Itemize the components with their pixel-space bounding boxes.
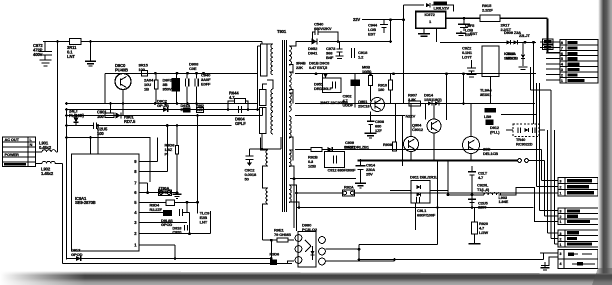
svg-text:C920: C920 bbox=[172, 230, 182, 235]
svg-text:1: 1 bbox=[560, 220, 562, 224]
transformer primary winding bbox=[271, 44, 273, 75]
wire connector feeds bbox=[540, 41, 560, 43]
svg-text:1.45x2: 1.45x2 bbox=[41, 171, 54, 176]
wire bottom bus 2 bbox=[63, 263, 293, 265]
svg-text:B4F: B4F bbox=[326, 55, 334, 60]
svg-text:R92A: R92A bbox=[344, 185, 354, 190]
svg-text:2M47 22C20BW: 2M47 22C20BW bbox=[320, 100, 348, 105]
wire opto bottom bbox=[288, 261, 295, 264]
wire row 207 bbox=[296, 207, 534, 209]
resistor R92B bbox=[311, 147, 322, 151]
svg-text:T901: T901 bbox=[277, 29, 287, 34]
wire IC972 bottom drop bbox=[436, 28, 438, 42]
wire left bus loop bbox=[104, 73, 106, 103]
svg-text:100: 100 bbox=[139, 67, 146, 72]
wire +B thick bbox=[446, 17, 480, 19]
wire pin9 bbox=[139, 161, 158, 163]
svg-text:LO?T: LO?T bbox=[462, 54, 473, 59]
svg-text:D941: D941 bbox=[308, 51, 318, 56]
svg-text:3: 3 bbox=[560, 252, 562, 256]
wire D911 bottom bbox=[415, 203, 417, 230]
inductor L903 bbox=[484, 193, 501, 195]
svg-text:3E3X1: 3E3X1 bbox=[480, 92, 492, 97]
wire primary top bbox=[262, 42, 273, 45]
svg-text:DRD/30LF: DRD/30LF bbox=[314, 86, 333, 91]
svg-text:SE5Z2: SE5Z2 bbox=[504, 55, 516, 60]
svg-text:PU40B: PU40B bbox=[115, 67, 128, 72]
svg-text:LNT: LNT bbox=[67, 54, 75, 59]
wire 190 row bbox=[471, 175, 473, 208]
wire misc right bbox=[530, 67, 532, 90]
svg-text:180: 180 bbox=[378, 87, 385, 92]
svg-text:DEL1CB: DEL1CB bbox=[483, 151, 498, 156]
svg-text:N: N bbox=[30, 142, 33, 147]
wire pin5 bbox=[139, 201, 166, 203]
resistor R9LB bbox=[485, 108, 497, 113]
svg-text:(PLL): (PLL) bbox=[490, 129, 500, 134]
wire opto out row244 bbox=[359, 244, 438, 246]
svg-text:E0FF: E0FF bbox=[201, 82, 211, 87]
svg-text:R908: R908 bbox=[383, 142, 393, 147]
inductor L902 bbox=[36, 163, 43, 165]
wire pin8 bbox=[139, 171, 167, 173]
svg-text:D9Z4 DRLZB1: D9Z4 DRLZB1 bbox=[344, 145, 370, 150]
node neutral-filter junction bbox=[65, 136, 68, 139]
capacitor C941 bbox=[185, 79, 187, 87]
svg-text:EST: EST bbox=[368, 31, 376, 36]
wire snubber row bbox=[67, 109, 258, 111]
node top-left junction bbox=[56, 40, 59, 43]
IC901 regulator bbox=[72, 154, 140, 251]
ground J910 bbox=[544, 262, 546, 268]
ground pin6 bbox=[176, 193, 178, 194]
transformer secondary windings bbox=[289, 46, 291, 65]
connector J909 bbox=[558, 230, 600, 247]
svg-text:3: 3 bbox=[560, 210, 562, 214]
wire pin3 bbox=[139, 222, 187, 224]
svg-text:2: 2 bbox=[560, 237, 562, 241]
wire secondary taps bbox=[289, 42, 311, 47]
svg-text:2SC18: 2SC18 bbox=[358, 103, 370, 108]
svg-text:1: 1 bbox=[560, 192, 562, 196]
label R921 bbox=[434, 2, 448, 6]
svg-text:680V/2KV: 680V/2KV bbox=[314, 26, 332, 31]
transistor Q903 bbox=[404, 137, 419, 152]
svg-text:GP-2B: GP-2B bbox=[157, 103, 169, 108]
node filter junctions bbox=[65, 108, 68, 111]
transformer primary formers bbox=[261, 44, 268, 76]
svg-text:100: 100 bbox=[97, 114, 104, 119]
svg-text:350V: 350V bbox=[163, 87, 172, 92]
svg-text:L/2W: L/2W bbox=[479, 230, 488, 235]
svg-text:C0E: C0E bbox=[189, 66, 197, 71]
svg-text:1: 1 bbox=[560, 243, 562, 247]
capacitor C906 bbox=[179, 209, 181, 216]
svg-text:GPLF: GPLF bbox=[235, 121, 246, 126]
svg-text:RD7.5: RD7.5 bbox=[124, 119, 136, 124]
svg-text:1/2B: 1/2B bbox=[308, 163, 316, 168]
svg-text:T1(L,6): T1(L,6) bbox=[477, 187, 490, 192]
snubber C912 bbox=[325, 152, 345, 168]
svg-text:0.45x2: 0.45x2 bbox=[39, 145, 52, 150]
wire transistor links bbox=[433, 104, 435, 120]
wire upper bus bbox=[105, 72, 258, 74]
wire drive row bbox=[67, 115, 263, 117]
svg-text:25V: 25V bbox=[366, 171, 373, 176]
node bus junctions bbox=[154, 72, 157, 75]
jumper J1 bbox=[518, 159, 522, 163]
wire Q904 base net bbox=[425, 103, 427, 119]
wire sec out bus bbox=[295, 73, 536, 75]
svg-text:79 OHMS: 79 OHMS bbox=[274, 232, 291, 237]
svg-text:1.94E: 1.94E bbox=[499, 199, 509, 204]
wire AC top bus bbox=[43, 41, 70, 43]
wire gate vertical bbox=[197, 116, 199, 214]
svg-text:EST: EST bbox=[470, 31, 478, 36]
wire pin4 drop bbox=[189, 213, 191, 234]
ground C914 bbox=[355, 182, 366, 184]
svg-text:22V: 22V bbox=[353, 17, 360, 22]
capacitor C2U5 bbox=[93, 122, 95, 129]
connector AC outlet J901 bbox=[3, 137, 36, 167]
wire IC972 left bbox=[403, 5, 405, 103]
svg-text:22LJT: 22LJT bbox=[519, 33, 530, 38]
capacitor C942 bbox=[194, 79, 196, 87]
wire opto out bottom bbox=[326, 260, 395, 262]
transformer core bbox=[282, 40, 284, 212]
transformer aux winding bbox=[266, 150, 268, 166]
IC973 box bbox=[482, 46, 499, 76]
ground C905 bbox=[460, 31, 462, 33]
svg-text:1B: 1B bbox=[144, 87, 149, 92]
capacitor C540 bbox=[313, 32, 316, 42]
capacitor C9Z3 bbox=[467, 67, 476, 69]
svg-text:3: 3 bbox=[560, 180, 562, 184]
wire primary links bbox=[257, 46, 259, 110]
svg-text:2: 2 bbox=[560, 215, 562, 219]
resistor R908 0.1 LNT bbox=[70, 39, 82, 45]
svg-text:R2.2ZF: R2.2ZF bbox=[150, 207, 163, 212]
wire row 193 bbox=[295, 192, 343, 194]
capacitor C920 bbox=[184, 225, 186, 231]
svg-text:3: 3 bbox=[560, 232, 562, 236]
wire opto out row259 bbox=[359, 259, 544, 261]
wire filter to IC drop bbox=[67, 138, 151, 183]
wire lower bus bbox=[67, 103, 258, 105]
wire mid bus Q901 bbox=[295, 103, 535, 105]
svg-text:22K: 22K bbox=[296, 65, 303, 70]
wire IC top links bbox=[90, 138, 92, 155]
capacitor C644 snubber bbox=[238, 106, 240, 113]
wire row 178 bbox=[290, 178, 356, 180]
wire 12V row bbox=[295, 149, 311, 151]
transistor Q902 bbox=[463, 137, 480, 154]
wire dash block leads bbox=[506, 129, 513, 131]
resistor R909 bbox=[369, 76, 373, 86]
diode D901 bbox=[75, 116, 77, 119]
wire +B down bbox=[547, 18, 549, 53]
svg-text:1.2: 1.2 bbox=[358, 55, 364, 60]
wire bold output bus bbox=[358, 160, 518, 162]
wire aux42 bus bbox=[440, 41, 536, 43]
svg-text:RC3022D: RC3022D bbox=[516, 141, 533, 146]
wire pin1 bbox=[139, 244, 175, 246]
svg-text:LNT: LNT bbox=[200, 220, 208, 225]
svg-text:1SS119(2): 1SS119(2) bbox=[424, 97, 442, 102]
node snubber junctions bbox=[227, 108, 230, 111]
svg-text:IC972: IC972 bbox=[425, 12, 436, 17]
wire AC neutral vertical bbox=[66, 110, 68, 260]
svg-text:LB9: LB9 bbox=[484, 114, 492, 119]
svg-text:2200: 2200 bbox=[478, 205, 487, 210]
wire pin7 bbox=[139, 182, 148, 184]
wire bottom bus 1 bbox=[67, 258, 272, 260]
diode feed boxes bbox=[543, 39, 554, 44]
wire right bundle verticals bbox=[533, 42, 535, 124]
svg-text:L93LV2V: L93LV2V bbox=[434, 6, 450, 11]
connector J907 bbox=[558, 178, 598, 197]
svg-text:D911 DBL/2R1U: D911 DBL/2R1U bbox=[410, 175, 438, 180]
wire top bus to transformer bbox=[81, 41, 262, 43]
IC972 regulator box bbox=[416, 12, 446, 29]
ground Y-cap bbox=[90, 42, 92, 62]
connector J902 top right bbox=[560, 40, 598, 83]
svg-text:C9012: C9012 bbox=[412, 127, 424, 132]
ground IC972 bbox=[423, 28, 425, 33]
svg-text:4: 4 bbox=[560, 262, 562, 266]
wire J910 feeds bbox=[540, 252, 558, 254]
wire AC live vertical bbox=[57, 42, 59, 153]
wire pin6 bbox=[139, 192, 177, 194]
diode D9Z4 bbox=[328, 147, 332, 152]
wire bundle elbows bbox=[542, 180, 559, 182]
svg-text:AC OUT: AC OUT bbox=[5, 137, 20, 142]
connector J908 bbox=[558, 208, 600, 224]
ground C908 bbox=[365, 132, 377, 134]
svg-text:0.47 EST,5: 0.47 EST,5 bbox=[309, 65, 328, 70]
wire filter row3 bbox=[67, 125, 94, 127]
svg-text:SE9-2870B: SE9-2870B bbox=[75, 200, 96, 205]
svg-text:POWER: POWER bbox=[5, 152, 20, 157]
wire IC972 top right bbox=[432, 5, 454, 11]
wire opto out mid bbox=[326, 248, 360, 250]
wire 22V to IC972 bbox=[404, 4, 425, 6]
diode D920 bbox=[426, 3, 430, 7]
svg-text:680P/100F: 680P/100F bbox=[417, 212, 436, 217]
wire filter row2 bbox=[67, 115, 106, 117]
svg-text:2.2/2F: 2.2/2F bbox=[482, 8, 493, 13]
diode D905 bbox=[163, 210, 172, 216]
capacitor C9C2 snubber bbox=[249, 148, 281, 150]
wire pin2 bbox=[139, 233, 211, 235]
connector J910 dashed bbox=[558, 250, 598, 269]
wire N22V row bbox=[295, 115, 405, 117]
svg-text:C912 680F/300F: C912 680F/300F bbox=[328, 168, 357, 173]
svg-text:2: 2 bbox=[560, 186, 562, 190]
svg-text:1ZF: 1ZF bbox=[375, 128, 382, 133]
wire pin4 bbox=[139, 212, 163, 214]
wire L902 return vertical bbox=[62, 164, 64, 264]
capacitor C9C2 dark bbox=[351, 80, 361, 87]
svg-text:PI: PI bbox=[165, 152, 169, 157]
wire aux links bbox=[261, 138, 269, 151]
resistor R920 bbox=[472, 222, 478, 234]
wire reg row bbox=[501, 114, 537, 116]
